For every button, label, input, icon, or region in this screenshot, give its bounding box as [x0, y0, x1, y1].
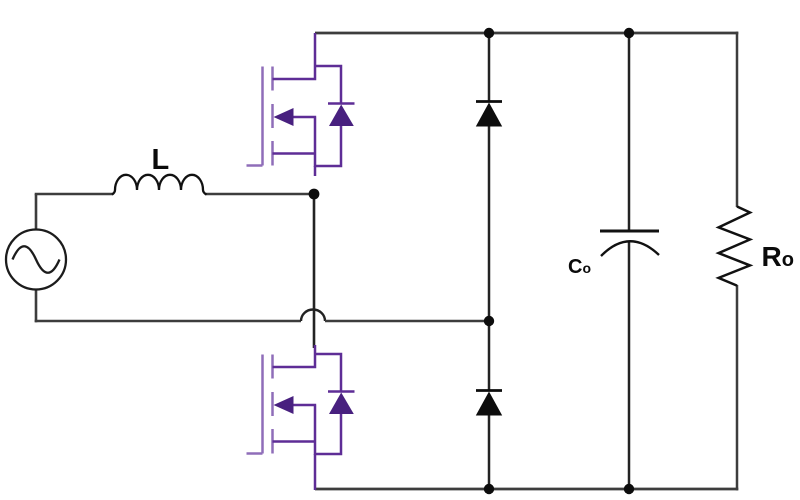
wire: capacitor top leg	[628, 33, 631, 231]
node dot: mid wire / diode leg	[484, 316, 494, 326]
node dot: top rail / upper diode	[484, 28, 494, 38]
ac source V1	[6, 230, 66, 290]
capacitor Co	[600, 231, 659, 256]
diode D2 (lower)	[476, 391, 502, 416]
wire: upper diode leg to mid node	[488, 126, 491, 321]
svg-text:Ro: Ro	[762, 241, 794, 272]
node A dot: inductor / half-bridge midpoint	[309, 189, 320, 200]
wire: bottom rail	[315, 488, 738, 491]
wire: AC source bottom lead	[35, 289, 38, 322]
wire: AC source top lead	[35, 194, 38, 230]
node dot: top rail / capacitor	[624, 28, 634, 38]
svg-text:L: L	[152, 144, 170, 176]
wire: lower diode leg top	[488, 321, 491, 390]
wire: top rail	[315, 32, 738, 35]
wire: node A down to lower MOSFET drain	[313, 194, 316, 348]
svg-text:Co: Co	[568, 256, 591, 278]
wire hop over vertical	[301, 310, 325, 322]
inductor L	[112, 175, 207, 195]
wire: mid horizontal hop to diode leg	[325, 320, 489, 323]
wire: mid horizontal left of hop	[35, 320, 301, 323]
mosfet Q2 (lower, with body diode)	[247, 345, 355, 490]
wire: top-left horizontal to inductor	[35, 193, 113, 196]
resistor Ro	[719, 207, 750, 286]
wire: capacitor bottom leg	[628, 242, 631, 489]
diode D1 (upper)	[476, 102, 502, 127]
node dot: bottom rail / capacitor	[624, 484, 634, 494]
wire: right vertical upper (to resistor)	[736, 32, 739, 207]
wire: right vertical lower (from resistor)	[736, 285, 739, 490]
node dot: bottom rail / lower diode	[484, 484, 494, 494]
wire: upper diode leg top	[488, 33, 491, 102]
mosfet Q1 (upper, with body diode)	[247, 33, 355, 176]
wire: inductor to node A	[206, 193, 315, 196]
wire: lower diode leg bottom	[488, 414, 491, 489]
